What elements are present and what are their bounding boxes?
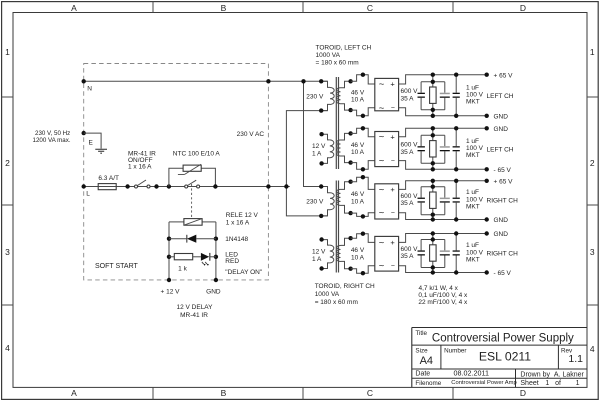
node AC input top row2 xyxy=(361,126,365,130)
svg-text:RIGHT CH: RIGHT CH xyxy=(487,198,519,205)
node 1uF bottom row1 xyxy=(454,114,458,118)
svg-text:+ 65 V: + 65 V xyxy=(494,179,514,186)
svg-text:35 A: 35 A xyxy=(401,200,415,207)
svg-text:4: 4 xyxy=(590,344,595,354)
wire N rail xyxy=(84,80,328,82)
label 600 V 35 A row3 xyxy=(401,193,419,207)
label 600 V 35 A row1 xyxy=(401,88,419,102)
svg-text:RIGHT CH: RIGHT CH xyxy=(487,251,519,258)
svg-text:~: ~ xyxy=(379,261,385,272)
svg-text:A: A xyxy=(71,3,77,13)
node L boundary crossing xyxy=(266,184,270,188)
svg-text:22 mF/100 V, 4 x: 22 mF/100 V, 4 x xyxy=(418,299,468,306)
node AC input top row3 xyxy=(361,175,365,179)
svg-text:MR-41 IR: MR-41 IR xyxy=(180,312,208,319)
node bank bottom row1 xyxy=(431,108,435,118)
label TOROID LEFT CH xyxy=(316,44,372,66)
svg-text:100 V: 100 V xyxy=(466,92,484,99)
wire negative rail row4 xyxy=(399,266,487,273)
wire secondary to rectifier top row4 xyxy=(351,234,375,243)
node L at box edge xyxy=(82,184,86,188)
svg-text:1200 VA max.: 1200 VA max. xyxy=(33,137,71,144)
svg-text:35 A: 35 A xyxy=(401,253,415,260)
node diode row left xyxy=(167,237,171,241)
node AC input top row4 xyxy=(361,232,365,236)
relay contact to coil dashed link xyxy=(191,184,193,219)
label 46 V 10 A row4 xyxy=(351,247,365,261)
transformer T1 primary winding 230V (row1) xyxy=(321,81,334,110)
node led row left xyxy=(167,255,171,259)
svg-text:1: 1 xyxy=(590,47,595,57)
svg-text:- 65 V: - 65 V xyxy=(494,270,512,277)
wire positive rail row3 xyxy=(399,181,487,190)
bridge rectifier 600V 35A row3 xyxy=(375,184,399,219)
node AC input bottom row4 xyxy=(361,271,365,275)
svg-text:230 V AC: 230 V AC xyxy=(237,131,265,138)
svg-text:Date: Date xyxy=(415,371,430,378)
svg-text:−: − xyxy=(391,210,395,217)
bridge rectifier 600V 35A row2 xyxy=(375,132,399,167)
wire NTC bypass branch xyxy=(169,168,216,186)
capacitor C-film 0.1uF row2 xyxy=(440,146,450,151)
svg-text:~: ~ xyxy=(379,156,385,167)
svg-text:GND: GND xyxy=(206,289,221,296)
value sheet 1 of 1 xyxy=(545,380,579,387)
svg-text:1 x 16 A: 1 x 16 A xyxy=(128,163,152,170)
wire negative rail row3 xyxy=(399,213,487,220)
svg-text:+: + xyxy=(390,238,395,247)
svg-text:~: ~ xyxy=(379,184,385,195)
svg-text:−: − xyxy=(391,158,395,165)
svg-text:+: + xyxy=(390,80,395,89)
title block dividers xyxy=(412,345,587,387)
fuse F1 6.3 A/T xyxy=(98,184,116,190)
wire secondary to rectifier top row1 xyxy=(351,75,375,84)
wire relay ladder left rail xyxy=(168,222,170,280)
svg-text:MKT: MKT xyxy=(466,152,480,159)
svg-text:08.02.2011: 08.02.2011 xyxy=(454,368,489,377)
node GND terminal xyxy=(214,278,218,282)
capacitor C 1uF 100V MKT row2 xyxy=(453,128,460,169)
svg-text:100 V: 100 V xyxy=(466,249,484,256)
label 12 V 1 A row2 xyxy=(312,143,326,158)
wire positive rail row2 xyxy=(399,128,487,136)
svg-text:12 V: 12 V xyxy=(312,143,326,150)
node secondary top row3 xyxy=(348,180,352,184)
row labels right 1 2 3 4 xyxy=(590,47,595,354)
node secondary bottom row2 xyxy=(348,160,352,164)
svg-text:A: A xyxy=(71,388,77,398)
node 1uF top row1 xyxy=(454,73,458,77)
svg-text:GND: GND xyxy=(494,217,509,224)
toroid T1 core (LEFT CH) xyxy=(336,77,338,169)
svg-text:GND: GND xyxy=(494,231,509,238)
svg-text:~: ~ xyxy=(379,237,385,248)
label LED RED DELAY ON xyxy=(225,252,263,276)
wire relay ladder right rail xyxy=(215,222,217,280)
svg-text:600 V: 600 V xyxy=(401,193,419,200)
svg-text:1 uF: 1 uF xyxy=(466,84,479,91)
wire secondary to rectifier top row3 xyxy=(351,177,375,189)
node AC input bottom row3 xyxy=(361,214,365,218)
node fuse-switch xyxy=(125,184,129,188)
wire secondary to rectifier bottom row2 xyxy=(351,161,375,170)
svg-text:230 V, 50 Hz: 230 V, 50 Hz xyxy=(35,130,70,137)
toroid T2 core (RIGHT CH) xyxy=(336,181,338,273)
svg-text:12 V: 12 V xyxy=(312,248,326,255)
node T1 primary top xyxy=(319,79,323,83)
transformer secondary winding 46V row1 xyxy=(337,81,351,110)
svg-text:46 V: 46 V xyxy=(351,191,365,198)
svg-text:1: 1 xyxy=(576,380,580,387)
svg-text:D: D xyxy=(520,3,526,13)
svg-text:C: C xyxy=(367,3,373,13)
svg-text:= 180 x 60 mm: = 180 x 60 mm xyxy=(315,299,358,306)
svg-text:D: D xyxy=(520,388,526,398)
title block outline xyxy=(412,328,587,388)
node bank top row4 xyxy=(431,231,435,241)
label 46 V 10 A row3 xyxy=(351,191,365,205)
label 600 V 35 A row4 xyxy=(401,246,419,260)
capacitor C 1uF 100V MKT row1 xyxy=(453,75,460,116)
wire capacitor bank vertical row4 xyxy=(432,234,434,273)
svg-text:E: E xyxy=(89,139,94,146)
svg-text:600 V: 600 V xyxy=(401,88,419,95)
capacitor C-film 0.1uF row3 xyxy=(440,198,450,203)
svg-text:1: 1 xyxy=(5,47,10,57)
LED D2 red xyxy=(201,253,216,266)
capacitor bank inner box row4 xyxy=(421,240,445,268)
node bank top row2 xyxy=(431,126,435,137)
node T2 aux top terminal xyxy=(319,237,323,241)
resistor bleeder 4.7k row3 xyxy=(430,192,437,208)
transformer secondary winding 46V row2 xyxy=(337,133,351,162)
node NTC branch right xyxy=(213,184,217,188)
node T2 aux bottom terminal xyxy=(319,266,323,270)
svg-text:MKT: MKT xyxy=(466,256,480,263)
svg-text:10 A: 10 A xyxy=(351,254,365,261)
wire positive rail row4 xyxy=(399,234,487,243)
resistor R1 1 k xyxy=(169,254,201,260)
capacitor C-elco 22mF row3 xyxy=(418,198,425,203)
svg-text:GND: GND xyxy=(494,126,509,133)
capacitor C-elco 22mF row4 xyxy=(418,250,425,255)
capacitor C 1uF 100V MKT row3 xyxy=(453,181,460,220)
svg-text:4,7 k/1 W, 4 x: 4,7 k/1 W, 4 x xyxy=(419,285,459,292)
node AC input bottom row1 xyxy=(361,114,365,118)
thermistor NTC 100 E/10 A xyxy=(178,164,201,174)
svg-text:NTC 100 E/10 A: NTC 100 E/10 A xyxy=(173,150,221,157)
svg-text:2: 2 xyxy=(5,158,10,168)
svg-text:6.3 A/T: 6.3 A/T xyxy=(98,175,119,182)
label 1uF 100V MKT row1 xyxy=(466,84,484,105)
label 46 V 10 A row1 xyxy=(351,90,365,104)
label TOROID RIGHT CH xyxy=(315,283,375,306)
wire capacitor bank vertical row3 xyxy=(432,181,434,220)
ground earth symbol E xyxy=(95,149,107,153)
svg-text:ESL 0211: ESL 0211 xyxy=(479,350,531,364)
label 600 V 35 A row2 xyxy=(401,142,419,156)
svg-text:1N4148: 1N4148 xyxy=(225,236,248,243)
wire negative rail row2 xyxy=(399,161,487,170)
node 1uF bottom row2 xyxy=(454,167,458,171)
svg-text:1 uF: 1 uF xyxy=(466,138,479,145)
relay contact K1 on L rail xyxy=(185,180,200,188)
node secondary top row1 xyxy=(348,79,352,83)
svg-text:TOROID, LEFT CH: TOROID, LEFT CH xyxy=(316,44,372,51)
svg-text:~: ~ xyxy=(379,79,385,90)
resistor bleeder 4.7k row1 xyxy=(430,87,437,103)
node T1 aux bottom terminal xyxy=(319,161,323,165)
node bank bottom row3 xyxy=(431,213,435,222)
svg-text:L: L xyxy=(86,191,90,198)
label 12 V 1 A row4 xyxy=(312,248,326,262)
svg-text:= 180 x 60 mm: = 180 x 60 mm xyxy=(316,59,359,66)
frame column ticks bottom xyxy=(153,387,453,399)
node bank bottom row2 xyxy=(431,161,435,171)
capacitor C 1uF 100V MKT row4 xyxy=(453,234,460,273)
transformer T2 primary winding 230V (row3) xyxy=(321,187,334,216)
svg-text:RED: RED xyxy=(225,258,239,265)
svg-text:1000 VA: 1000 VA xyxy=(315,291,340,298)
svg-text:Sheet: Sheet xyxy=(520,380,538,387)
node secondary bottom row3 xyxy=(348,211,352,215)
svg-text:46 V: 46 V xyxy=(351,90,365,97)
wire relay coil row xyxy=(169,221,216,223)
capacitor bank inner box row2 xyxy=(421,135,445,163)
label RELE 12 V 1 x 16 A xyxy=(226,212,259,227)
svg-text:46 V: 46 V xyxy=(351,142,365,149)
node N at box edge xyxy=(82,79,86,83)
transformer T2 aux winding 12V (row4) xyxy=(322,240,334,269)
frame column ticks top xyxy=(153,2,453,13)
node 1uF bottom row4 xyxy=(454,270,458,274)
wire L bus to primary bottoms xyxy=(286,111,327,216)
svg-text:A4: A4 xyxy=(420,355,433,367)
capacitor bank inner box row1 xyxy=(421,82,445,110)
column labels bottom A B C D xyxy=(71,388,526,398)
svg-text:12 V DELAY: 12 V DELAY xyxy=(176,304,213,311)
terminal + 65 V row1 xyxy=(485,73,489,77)
label 12 V DELAY MR-41 IR xyxy=(176,304,213,319)
label 46 V 10 A row2 xyxy=(351,142,365,156)
relay coil RELE 12 V xyxy=(184,219,202,226)
svg-text:+ 65 V: + 65 V xyxy=(494,72,514,79)
svg-text:35 A: 35 A xyxy=(401,149,415,156)
svg-text:600 V: 600 V xyxy=(401,246,419,253)
node T1 aux top terminal xyxy=(319,132,323,136)
svg-text:SOFT START: SOFT START xyxy=(95,263,139,270)
terminal - 65 V row4 xyxy=(485,270,489,274)
wire secondary to rectifier bottom row1 xyxy=(351,108,375,116)
node AC input bottom row2 xyxy=(361,167,365,171)
svg-text:Controversial Power Amp: Controversial Power Amp xyxy=(451,380,516,386)
node bank top row3 xyxy=(431,179,435,189)
svg-text:10 A: 10 A xyxy=(351,198,365,205)
svg-text:4: 4 xyxy=(5,343,10,353)
svg-text:MKT: MKT xyxy=(466,99,480,106)
svg-text:1 uF: 1 uF xyxy=(466,242,479,249)
svg-text:3: 3 xyxy=(5,247,10,257)
frame row ticks right xyxy=(587,97,598,305)
node secondary top row2 xyxy=(348,131,352,135)
svg-text:- 65 V: - 65 V xyxy=(494,167,512,174)
svg-text:35 A: 35 A xyxy=(401,95,415,102)
label MR-41 IR ON/OFF 1 x 16 A xyxy=(128,150,156,170)
transformer secondary winding 46V row3 xyxy=(337,182,351,213)
node 1uF top row4 xyxy=(454,231,458,235)
bridge rectifier 600V 35A row1 xyxy=(375,78,399,113)
capacitor bank inner box row3 xyxy=(421,187,445,215)
transformer secondary winding 46V row4 xyxy=(337,238,351,269)
frame row ticks left xyxy=(2,97,13,305)
svg-text:B: B xyxy=(221,388,227,398)
wire positive rail row1 xyxy=(399,75,487,84)
node 1uF top row3 xyxy=(454,179,458,183)
svg-text:LEFT CH: LEFT CH xyxy=(487,93,514,100)
label 1uF 100V MKT row2 xyxy=(466,138,484,159)
diode D1 1N4148 xyxy=(169,235,216,243)
resistor bleeder 4.7k row2 xyxy=(430,141,437,157)
terminal GND row4 xyxy=(485,231,489,235)
node 1uF bottom row3 xyxy=(454,217,458,221)
wire negative rail row1 xyxy=(399,108,487,116)
svg-text:10 A: 10 A xyxy=(351,149,365,156)
svg-text:1: 1 xyxy=(545,380,549,387)
terminal GND row1 xyxy=(485,114,489,118)
node T1 primary bottom xyxy=(319,108,323,112)
wire E to earth xyxy=(84,133,101,149)
svg-text:1 A: 1 A xyxy=(312,151,322,158)
svg-text:RELE 12 V: RELE 12 V xyxy=(226,212,259,219)
wire secondary to rectifier bottom row3 xyxy=(351,213,375,217)
svg-text:~: ~ xyxy=(379,132,385,143)
column labels top A B C D xyxy=(71,3,526,13)
svg-text:Controversial Power Supply: Controversial Power Supply xyxy=(432,333,574,345)
terminal + 65 V row3 xyxy=(485,179,489,183)
node +12V terminal xyxy=(167,278,171,282)
terminal GND row3 xyxy=(485,217,489,221)
svg-text:1 uF: 1 uF xyxy=(466,189,479,196)
svg-text:1 k: 1 k xyxy=(178,265,187,272)
terminal GND row2 xyxy=(485,126,489,130)
svg-text:230 V: 230 V xyxy=(306,199,324,206)
node secondary bottom row4 xyxy=(348,267,352,271)
node N boundary crossing xyxy=(266,79,270,83)
node led row right xyxy=(214,255,218,259)
svg-text:Number: Number xyxy=(444,348,466,355)
row labels left 1 2 3 4 xyxy=(5,47,10,353)
bridge rectifier 600V 35A row4 xyxy=(375,236,399,271)
svg-text:B: B xyxy=(221,3,227,13)
svg-text:100 V: 100 V xyxy=(466,145,484,152)
node T2 primary top xyxy=(319,184,323,188)
label 230 V, 50 Hz 1200 VA max xyxy=(33,130,71,144)
svg-text:~: ~ xyxy=(379,103,385,114)
node T2 primary bottom xyxy=(319,214,323,218)
node L bus junction xyxy=(284,184,288,188)
svg-text:TOROID, RIGHT CH: TOROID, RIGHT CH xyxy=(315,283,375,290)
mains module dashed boundary box xyxy=(84,64,269,280)
label capacitor bank notes xyxy=(418,285,468,306)
terminal - 65 V row2 xyxy=(485,167,489,171)
svg-text:LEFT CH: LEFT CH xyxy=(487,146,514,153)
svg-text:100 V: 100 V xyxy=(466,197,484,204)
svg-text:MKT: MKT xyxy=(466,204,480,211)
node secondary top row4 xyxy=(348,236,352,240)
svg-text:600 V: 600 V xyxy=(401,142,419,149)
wire secondary to rectifier bottom row4 xyxy=(351,266,375,274)
svg-text:of: of xyxy=(555,380,561,387)
svg-text:1.1: 1.1 xyxy=(568,353,583,365)
svg-text:3: 3 xyxy=(590,247,595,257)
node NTC branch left xyxy=(167,184,171,188)
capacitor C-film 0.1uF row1 xyxy=(440,93,450,98)
node diode row right xyxy=(214,237,218,241)
node switch-right xyxy=(154,184,158,188)
svg-text:GND: GND xyxy=(494,114,509,121)
wire L rail xyxy=(84,186,290,188)
capacitor C-film 0.1uF row4 xyxy=(440,250,450,255)
svg-text:~: ~ xyxy=(379,208,385,219)
label 1uF 100V MKT row3 xyxy=(466,189,484,210)
node AC input top row1 xyxy=(361,73,365,77)
svg-text:+: + xyxy=(390,185,395,194)
svg-text:+ 12 V: + 12 V xyxy=(161,289,181,296)
capacitor C-elco 22mF row1 xyxy=(418,93,425,98)
svg-text:"DELAY ON": "DELAY ON" xyxy=(225,269,263,276)
node bank top row1 xyxy=(431,73,435,85)
svg-text:N: N xyxy=(87,86,92,93)
svg-text:1 A: 1 A xyxy=(312,256,322,263)
wire N bus to toroid2 primary xyxy=(304,81,328,186)
node E xyxy=(82,131,86,135)
svg-text:1000 VA: 1000 VA xyxy=(316,52,341,59)
wire secondary to rectifier top row2 xyxy=(351,128,375,136)
svg-text:2: 2 xyxy=(590,158,595,168)
wire capacitor bank vertical row2 xyxy=(432,128,434,169)
svg-text:Size: Size xyxy=(415,348,428,355)
svg-text:+: + xyxy=(390,132,395,141)
svg-text:A. Lakner: A. Lakner xyxy=(554,371,585,378)
svg-text:−: − xyxy=(391,263,395,270)
svg-text:Filenome: Filenome xyxy=(415,380,441,387)
svg-text:46 V: 46 V xyxy=(351,247,365,254)
label 1uF 100V MKT row4 xyxy=(466,242,484,263)
node N bus junction xyxy=(301,79,305,83)
node 1uF top row2 xyxy=(454,126,458,130)
svg-text:Drown by: Drown by xyxy=(520,371,550,378)
svg-text:Title: Title xyxy=(415,330,427,337)
svg-text:230 V: 230 V xyxy=(306,93,324,100)
svg-text:−: − xyxy=(391,105,395,112)
node bank bottom row4 xyxy=(431,265,435,274)
wire capacitor bank vertical row1 xyxy=(432,75,434,116)
resistor bleeder 4.7k row4 xyxy=(430,245,437,261)
switch S1 MR-41 IR ON/OFF xyxy=(135,180,151,188)
svg-text:C: C xyxy=(367,388,373,398)
svg-text:10 A: 10 A xyxy=(351,97,365,104)
node secondary bottom row1 xyxy=(348,108,352,112)
capacitor C-elco 22mF row2 xyxy=(418,146,425,151)
transformer T1 aux winding 12V (row2) xyxy=(322,134,334,163)
svg-text:1 x 16 A: 1 x 16 A xyxy=(226,220,250,227)
